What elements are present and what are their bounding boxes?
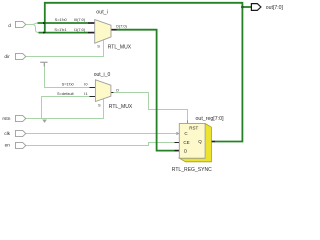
svg-text:I0(7:0): I0(7:0) bbox=[74, 17, 86, 22]
svg-text:en: en bbox=[5, 143, 11, 148]
svg-text:S: S bbox=[98, 103, 101, 108]
svg-text:Q: Q bbox=[198, 139, 202, 144]
svg-text:O: O bbox=[116, 88, 119, 93]
svg-text:out_reg[7:0]: out_reg[7:0] bbox=[196, 116, 225, 122]
svg-text:RST: RST bbox=[189, 126, 198, 131]
svg-text:I1: I1 bbox=[84, 91, 87, 96]
svg-text:out[7:0]: out[7:0] bbox=[266, 5, 284, 11]
svg-text:I1(7:0): I1(7:0) bbox=[74, 27, 86, 32]
svg-text:O(7:0): O(7:0) bbox=[116, 24, 128, 29]
svg-text:S=1'b0: S=1'b0 bbox=[62, 82, 75, 87]
svg-text:RTL_REG_SYNC: RTL_REG_SYNC bbox=[172, 167, 212, 173]
svg-text:out_i: out_i bbox=[96, 10, 108, 16]
svg-text:clk: clk bbox=[4, 131, 10, 137]
svg-text:S=1'b1: S=1'b1 bbox=[54, 27, 66, 32]
svg-text:S=1'b0: S=1'b0 bbox=[55, 17, 68, 22]
svg-text:S=default: S=default bbox=[57, 91, 74, 96]
svg-text:out_i_0: out_i_0 bbox=[94, 72, 111, 78]
svg-text:d: d bbox=[8, 23, 11, 29]
svg-text:RTL_MUX: RTL_MUX bbox=[108, 44, 132, 50]
svg-text:dir: dir bbox=[4, 54, 10, 60]
svg-text:RTL_MUX: RTL_MUX bbox=[109, 104, 133, 110]
svg-text:S: S bbox=[97, 44, 100, 49]
svg-text:CE: CE bbox=[183, 140, 189, 145]
svg-text:rstn: rstn bbox=[2, 116, 10, 122]
